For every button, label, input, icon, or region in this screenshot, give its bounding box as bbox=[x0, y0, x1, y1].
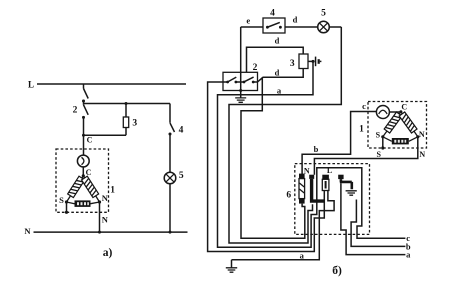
svg-text:а): а) bbox=[103, 247, 113, 259]
svg-text:1: 1 bbox=[110, 186, 115, 196]
svg-text:L: L bbox=[28, 80, 34, 90]
svg-text:c: c bbox=[362, 101, 366, 111]
svg-text:N: N bbox=[419, 150, 425, 159]
svg-text:C: C bbox=[87, 136, 93, 145]
svg-text:2: 2 bbox=[253, 63, 258, 73]
svg-text:C: C bbox=[86, 168, 92, 177]
svg-text:б): б) bbox=[332, 265, 342, 277]
svg-text:d: d bbox=[275, 36, 280, 46]
svg-text:C: C bbox=[401, 103, 407, 112]
svg-text:2: 2 bbox=[73, 106, 78, 116]
svg-text:4: 4 bbox=[270, 9, 275, 19]
svg-text:1: 1 bbox=[359, 125, 364, 135]
svg-text:S: S bbox=[376, 130, 381, 139]
svg-text:S: S bbox=[376, 150, 381, 159]
svg-text:N: N bbox=[102, 215, 109, 225]
svg-text:3: 3 bbox=[132, 119, 137, 129]
svg-text:5: 5 bbox=[321, 9, 326, 19]
svg-text:N: N bbox=[102, 193, 109, 203]
svg-text:d: d bbox=[275, 68, 280, 78]
svg-text:a: a bbox=[406, 250, 411, 260]
svg-text:e: e bbox=[246, 16, 250, 26]
svg-text:4: 4 bbox=[179, 126, 184, 136]
svg-text:S: S bbox=[59, 195, 64, 205]
svg-text:N: N bbox=[419, 130, 425, 139]
svg-text:L: L bbox=[327, 166, 332, 175]
svg-text:6: 6 bbox=[286, 191, 291, 201]
svg-text:b: b bbox=[314, 144, 319, 154]
svg-text:N: N bbox=[24, 226, 31, 236]
svg-text:N: N bbox=[304, 166, 310, 175]
svg-text:a: a bbox=[300, 250, 305, 260]
svg-text:d: d bbox=[293, 15, 298, 25]
svg-text:5: 5 bbox=[179, 171, 184, 181]
svg-text:3: 3 bbox=[290, 59, 295, 69]
